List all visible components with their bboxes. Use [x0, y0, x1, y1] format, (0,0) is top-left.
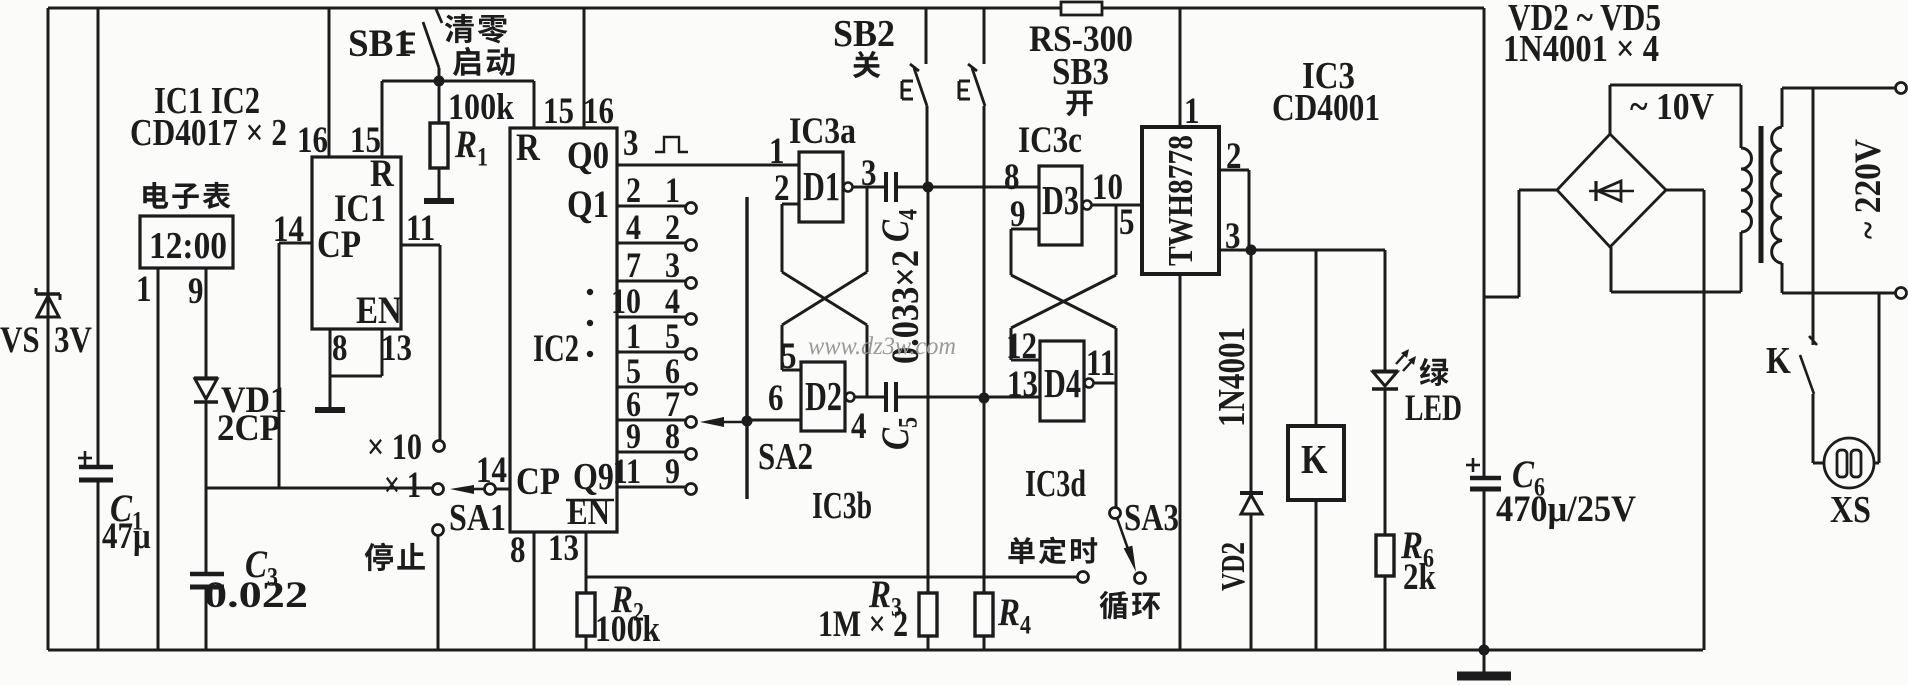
wire K to XS: [1813, 462, 1825, 465]
svg-text:5: 5: [1119, 201, 1135, 242]
label 电子表: [143, 182, 230, 209]
wire AC top horizontal: [1610, 84, 1741, 87]
wire IC2 pin16 to top rail: [583, 8, 586, 128]
svg-text:K: K: [1301, 438, 1327, 483]
wire IC2 pin8 to bottom: [533, 532, 536, 650]
svg-text:16: 16: [297, 119, 328, 160]
wire DC minus to bridge: [1519, 189, 1557, 192]
wire D3 out to TWH pin5: [1092, 204, 1142, 207]
wire IC1 pin8 down: [329, 329, 332, 407]
terminal 220V top: [1896, 83, 1907, 94]
node junction dot TWH out: [1246, 245, 1257, 256]
svg-text:15: 15: [543, 90, 574, 131]
transformer secondary coil: [1741, 148, 1751, 169]
svg-text:3V: 3V: [54, 319, 92, 360]
wire left border (battery + rail): [47, 8, 50, 650]
svg-text:2CP: 2CP: [217, 407, 281, 448]
wire XS right up: [1874, 462, 1879, 465]
resistor R2: [577, 593, 595, 636]
wire IC2 pin 7 to contact 3: [617, 280, 685, 283]
ground IC1 pin8: [315, 407, 345, 413]
wire D4 out up: [1115, 328, 1118, 383]
wire SA1 common to IC2 CP: [496, 488, 510, 491]
wire cross couple c2: [1011, 275, 1116, 328]
wire bridge bottom AC: [1610, 247, 1613, 292]
svg-text:D1: D1: [803, 165, 840, 210]
wire K contact from primary top: [1812, 88, 1815, 345]
socket XS pins: [1837, 450, 1847, 477]
SA2 contact circle 9: [686, 484, 697, 495]
svg-text:TWH8778: TWH8778: [1162, 135, 1201, 266]
svg-text:1: 1: [136, 268, 152, 309]
svg-text:8: 8: [510, 529, 526, 570]
wire K coil to bottom: [1315, 500, 1318, 650]
svg-text:8: 8: [332, 327, 348, 368]
capacitor C5 plates: [886, 382, 896, 412]
svg-text:CD4001: CD4001: [1272, 86, 1380, 128]
wire IC2 pin 1 to contact 5: [617, 351, 685, 354]
SA2 contact circle 8: [686, 449, 697, 460]
wire D4 pin12 stub: [1011, 359, 1040, 362]
svg-text:SA3: SA3: [1124, 496, 1179, 538]
wire IC2 pin15 up: [533, 81, 536, 128]
svg-text:× 10: × 10: [367, 426, 422, 467]
wire D2 out to C5: [855, 396, 884, 399]
pushbutton SB2 arm: [914, 68, 927, 106]
SA2 selector bar: [745, 197, 748, 499]
svg-text:3: 3: [623, 122, 639, 163]
wire IC2 pin13 down: [585, 532, 588, 593]
svg-text:0.022: 0.022: [204, 574, 308, 615]
pushbutton SB2 tick: [910, 64, 919, 71]
relay K box: [1288, 426, 1344, 500]
diode VD1: [194, 378, 218, 402]
wire TWH pin2 stub: [1219, 169, 1249, 172]
node junction dot C4/SB2/R3: [923, 182, 934, 193]
pushbutton SB3 arm: [972, 68, 985, 106]
svg-text:IC3c: IC3c: [1018, 119, 1082, 160]
svg-text:SB1: SB1: [348, 21, 412, 64]
gate D3 output bubble: [1083, 201, 1092, 210]
wire R3 from C4 node down: [927, 187, 930, 593]
resistor R1: [430, 123, 448, 168]
svg-text:11: 11: [1086, 342, 1115, 383]
wire stop contact down: [437, 536, 440, 650]
switch K tick: [1809, 336, 1817, 345]
wire IC1 pin14 stub: [279, 242, 312, 245]
wire SB2 from top rail: [925, 8, 928, 64]
svg-text:VS: VS: [0, 319, 40, 360]
capacitor C1 plus sign: [78, 451, 92, 465]
svg-text:Q0: Q0: [567, 133, 609, 176]
svg-text:470μ/25V: 470μ/25V: [1496, 488, 1636, 529]
svg-text:1: 1: [1184, 90, 1200, 131]
wire D1 pin2 stub: [782, 203, 799, 206]
svg-text:1: 1: [769, 130, 785, 171]
svg-text:47μ: 47μ: [102, 515, 151, 556]
wire DC minus step horizontal: [1484, 296, 1519, 299]
svg-text:13: 13: [548, 527, 579, 568]
wire VD2 to bottom: [1250, 514, 1253, 650]
svg-text:D4: D4: [1044, 362, 1081, 407]
pushbutton SB1 arm: [423, 22, 439, 68]
pushbutton SB1 top tick: [436, 9, 442, 23]
capacitor C1 plates: [79, 467, 113, 480]
socket XS circle: [1824, 438, 1874, 488]
wire IC2 pin 9 to contact 8: [617, 451, 685, 454]
wire IC2 pin 2 to contact 1: [617, 205, 685, 208]
wire cross couple a2: [782, 272, 867, 325]
switch SA3 top contact: [1110, 508, 1121, 519]
SA2 contact circle 3: [686, 278, 697, 289]
svg-text:www.dz3w.com: www.dz3w.com: [808, 333, 956, 360]
wiper SA1 common circle: [485, 484, 496, 495]
wire top +V rail (border): [48, 7, 1484, 10]
wire IC1 CP pin14 vertical: [278, 243, 281, 488]
svg-text:XS: XS: [1830, 488, 1871, 530]
capacitor C4 plates: [886, 172, 896, 202]
electronic clock box 电子表: [140, 216, 233, 268]
svg-text:6: 6: [768, 377, 784, 418]
wire LED to R6: [1384, 389, 1387, 535]
svg-text:EN: EN: [356, 288, 402, 331]
contact x1 circle: [433, 484, 444, 495]
svg-text:14: 14: [476, 449, 507, 490]
wire IC2 pin 11 to contact 9: [617, 486, 685, 489]
svg-text:LED: LED: [1405, 387, 1462, 428]
label IC2 EN overline: [566, 499, 614, 501]
gate D4 output bubble: [1085, 379, 1094, 388]
LED arrows: [1396, 349, 1416, 371]
wire C5 to D4 pin13: [898, 396, 1040, 399]
gate IC3b D2 box: [801, 362, 845, 431]
wire 单定时 net: [586, 576, 1077, 579]
svg-text:11: 11: [406, 207, 435, 248]
capacitor C6 plates: [1470, 478, 1501, 489]
svg-text:~ 220V: ~ 220V: [1849, 138, 1889, 239]
svg-text:16: 16: [583, 90, 614, 131]
wire ground stub: [1483, 650, 1486, 673]
resistor R4: [975, 593, 993, 636]
wire bridge DC plus right: [1666, 189, 1704, 192]
ground symbol main: [1457, 672, 1511, 681]
SA2 contact circle 5: [686, 349, 697, 360]
svg-text:CP: CP: [516, 459, 560, 502]
wire to D2 pin5 down: [781, 325, 784, 370]
wire IC1 pin11 to x10 contact: [439, 245, 442, 441]
wire C6 to bottom rail: [1483, 489, 1486, 650]
switch SA3 bottom contact 循环: [1135, 573, 1146, 584]
wire VD2 branch down: [1250, 250, 1253, 493]
label 关: [853, 51, 881, 78]
wire TWH pin2 down to pin3 net: [1248, 170, 1251, 250]
wire primary bottom down: [1781, 263, 1784, 293]
svg-text:2: 2: [774, 167, 790, 208]
wire IC1 pin11 stub: [401, 244, 440, 247]
bridge rectifier diamond: [1557, 134, 1666, 247]
wire C3 to bottom rail: [205, 587, 208, 650]
svg-text:IC3a: IC3a: [789, 110, 856, 151]
wire right border down: [1483, 8, 1486, 476]
svg-text:IC2: IC2: [533, 326, 579, 369]
wire K arm down: [1812, 394, 1815, 463]
wire primary top up: [1781, 88, 1784, 127]
wire D3 pin9 down: [1010, 229, 1013, 275]
SA2 contact circle 4: [686, 314, 697, 325]
svg-text:2k: 2k: [1403, 556, 1436, 597]
wire R3 to bottom: [927, 636, 930, 650]
bridge diode symbol: [1589, 181, 1634, 201]
svg-text:2: 2: [1226, 135, 1242, 176]
label 启动: [453, 47, 515, 76]
wire clock pin1 to bottom rail: [157, 268, 160, 650]
wire +3V rail vertical at x=98 upper: [97, 8, 100, 465]
label 停止: [365, 543, 425, 571]
svg-text:R: R: [516, 125, 540, 168]
wire DC minus step vertical: [1518, 190, 1521, 297]
SA2 wiper arrow: [700, 417, 724, 427]
node junction dot SB1/R1/reset: [434, 76, 445, 87]
gate IC3c D3 box: [1039, 166, 1082, 245]
wire bottom 0V rail (border): [48, 649, 1703, 652]
svg-text:13: 13: [381, 327, 412, 368]
wire IC1 pin15 up: [381, 81, 384, 157]
SA2 contact circle 1: [686, 203, 697, 214]
wire TWH bottom pin to 0V: [1179, 274, 1182, 650]
wire IC2 pin 10 to contact 4: [617, 316, 685, 319]
wire D2 out up: [866, 325, 869, 397]
node junction dot C6 ground: [1479, 645, 1490, 656]
pushbutton SB1 fixed contact: [403, 34, 415, 52]
wire D3 out branch down: [1115, 205, 1118, 275]
label 清零: [445, 14, 508, 44]
wire AC bottom horizontal: [1611, 291, 1741, 294]
svg-text:Q1: Q1: [567, 182, 609, 225]
wire R2 to bottom: [585, 636, 588, 650]
wire D1 out down: [866, 187, 869, 272]
wire SB1 to junction: [438, 68, 441, 123]
zener diode VS on left border: [36, 288, 60, 317]
ground R1: [424, 198, 454, 204]
svg-text:SA1: SA1: [449, 496, 506, 538]
wire TWH pin1 to top rail: [1179, 8, 1182, 127]
wire +3V rail vertical at x=98 lower: [97, 482, 100, 650]
label 绿: [1420, 358, 1449, 386]
svg-text:IC3d: IC3d: [1025, 462, 1086, 504]
wire R1 to ground: [438, 168, 441, 198]
svg-text:12: 12: [1006, 325, 1037, 366]
svg-text:12:00: 12:00: [149, 224, 227, 266]
resistor R3: [919, 593, 937, 636]
svg-text:K: K: [1766, 339, 1791, 381]
label 单定时: [1008, 537, 1097, 565]
svg-text:1N4001: 1N4001: [1211, 327, 1253, 427]
wire to D4 pin12 down: [1010, 328, 1013, 360]
svg-text:8: 8: [1004, 156, 1020, 197]
IC2 ellipsis dots: [587, 289, 593, 295]
IC1 CD4017 box: [312, 157, 401, 329]
node junction dot C5/SB3/R4: [979, 393, 990, 404]
contact 单定时 terminal: [1078, 572, 1089, 583]
contact x10 circle: [434, 441, 445, 452]
switch SA3 arm with arrow: [1117, 518, 1128, 549]
IC2 CD4017 box: [510, 128, 617, 532]
SA2 contact circle 2: [686, 240, 697, 251]
svg-text:D2: D2: [805, 375, 842, 420]
IC2 output ladder to SA2: [611, 170, 696, 494]
wire D4 out stub: [1094, 382, 1116, 385]
wire C4 to D3 pin8: [898, 186, 1039, 189]
terminal 220V bottom: [1896, 288, 1907, 299]
wire IC1 pin16 to top rail: [328, 8, 331, 157]
wire relay K branch down: [1315, 250, 1318, 426]
svg-text:4: 4: [851, 405, 867, 446]
SA2 contact circle 6: [686, 384, 697, 395]
svg-text:5: 5: [781, 335, 797, 376]
capacitor C6 plus: [1466, 458, 1480, 472]
wire TWH pin3 output net: [1219, 249, 1385, 252]
wire IC2 pin 5 to contact 6: [617, 386, 685, 389]
wire DC plus down to 0V rail: [1703, 190, 1706, 650]
svg-text:SB2: SB2: [833, 12, 895, 54]
svg-text:9: 9: [188, 270, 204, 311]
wire cross couple a1: [782, 272, 867, 325]
diode VD2: [1240, 493, 1263, 514]
pushbutton SB2 fixed contact: [902, 81, 913, 99]
pushbutton SB3 fixed contact: [959, 81, 970, 99]
wire D3 pin9 stub: [1011, 228, 1039, 231]
svg-text:× 1: × 1: [384, 464, 421, 505]
svg-text:VD2: VD2: [1214, 542, 1252, 591]
transformer primary coil: [1772, 127, 1782, 150]
wire D1 pin2 down: [781, 204, 784, 272]
contact stop circle: [433, 525, 444, 536]
svg-text:IC3b: IC3b: [812, 484, 872, 526]
wire IC1 pin13 down: [381, 329, 384, 376]
wire bridge top AC up: [1609, 85, 1612, 134]
SA1 wiper arrow: [450, 485, 474, 494]
wire R4 node down: [983, 398, 986, 593]
wire x1 node horizontal: [206, 487, 432, 490]
wire R6 to bottom: [1384, 576, 1387, 650]
svg-text:100k: 100k: [595, 608, 660, 649]
LED symbol: [1372, 371, 1398, 389]
wire VD1 to C3: [205, 402, 208, 572]
wire LED branch down: [1384, 250, 1387, 371]
label 开: [1066, 91, 1093, 117]
svg-text:CD4017 × 2: CD4017 × 2: [130, 111, 287, 153]
wire clock pin9 to VD1: [205, 268, 208, 378]
capacitor C3 plates: [190, 574, 224, 587]
wire primary bottom horizontal: [1782, 292, 1896, 295]
svg-text:15: 15: [350, 119, 381, 160]
wire primary top horizontal: [1782, 87, 1896, 90]
svg-text:CP: CP: [317, 222, 361, 265]
fuse RS-300: [1061, 2, 1102, 15]
pushbutton SB3 tick: [968, 64, 977, 71]
wire D2 pin5 stub: [782, 369, 801, 372]
svg-text:13: 13: [1007, 363, 1038, 404]
wire reset net horizontal (SB1/R1 to IC pins 15): [382, 80, 534, 83]
wire secondary bottom: [1740, 232, 1743, 292]
svg-text:SB3: SB3: [1052, 50, 1109, 92]
SA2 contact circle 7: [686, 417, 697, 428]
wire SB3 to C5 node: [983, 106, 986, 398]
svg-text:~ 10V: ~ 10V: [1630, 85, 1714, 127]
wire secondary top: [1740, 85, 1743, 148]
wire IC2 pin 4 to contact 2: [617, 242, 685, 245]
pulse waveform symbol: [655, 137, 688, 152]
wire D1 out to C4: [853, 186, 884, 189]
wire D4 out to SA3: [1115, 383, 1118, 507]
svg-text:1M × 2: 1M × 2: [818, 603, 908, 644]
IC TWH8778 box: [1142, 127, 1219, 274]
wire IC1 pin13 join pin8: [330, 375, 382, 378]
wire SB3 from top rail: [983, 8, 986, 64]
svg-text:3: 3: [1225, 215, 1241, 256]
resistor R6: [1376, 535, 1394, 576]
switch K arm: [1800, 355, 1814, 394]
gate IC3a D1 box: [799, 152, 843, 222]
transformer core: [1759, 126, 1764, 263]
label 循环: [1100, 591, 1160, 620]
wire SA2 to D2 pin6: [747, 419, 801, 422]
svg-text:SA2: SA2: [758, 435, 813, 477]
gate IC3d D4 box: [1040, 341, 1084, 421]
wire Q0 pin3 to D1 pin1: [617, 164, 799, 167]
wire SB2 to C4 node: [926, 106, 929, 187]
gate D1 output bubble: [844, 183, 853, 192]
svg-text:D3: D3: [1042, 179, 1079, 224]
wire cross couple c1: [1011, 275, 1116, 328]
gate D2 output bubble: [846, 393, 855, 402]
wire R4 to bottom: [983, 636, 986, 650]
wire IC2 pin 6 to contact 7: [617, 419, 685, 422]
svg-text:1N4001 × 4: 1N4001 × 4: [1503, 27, 1659, 69]
node junction dot SA2 bar: [742, 416, 753, 427]
